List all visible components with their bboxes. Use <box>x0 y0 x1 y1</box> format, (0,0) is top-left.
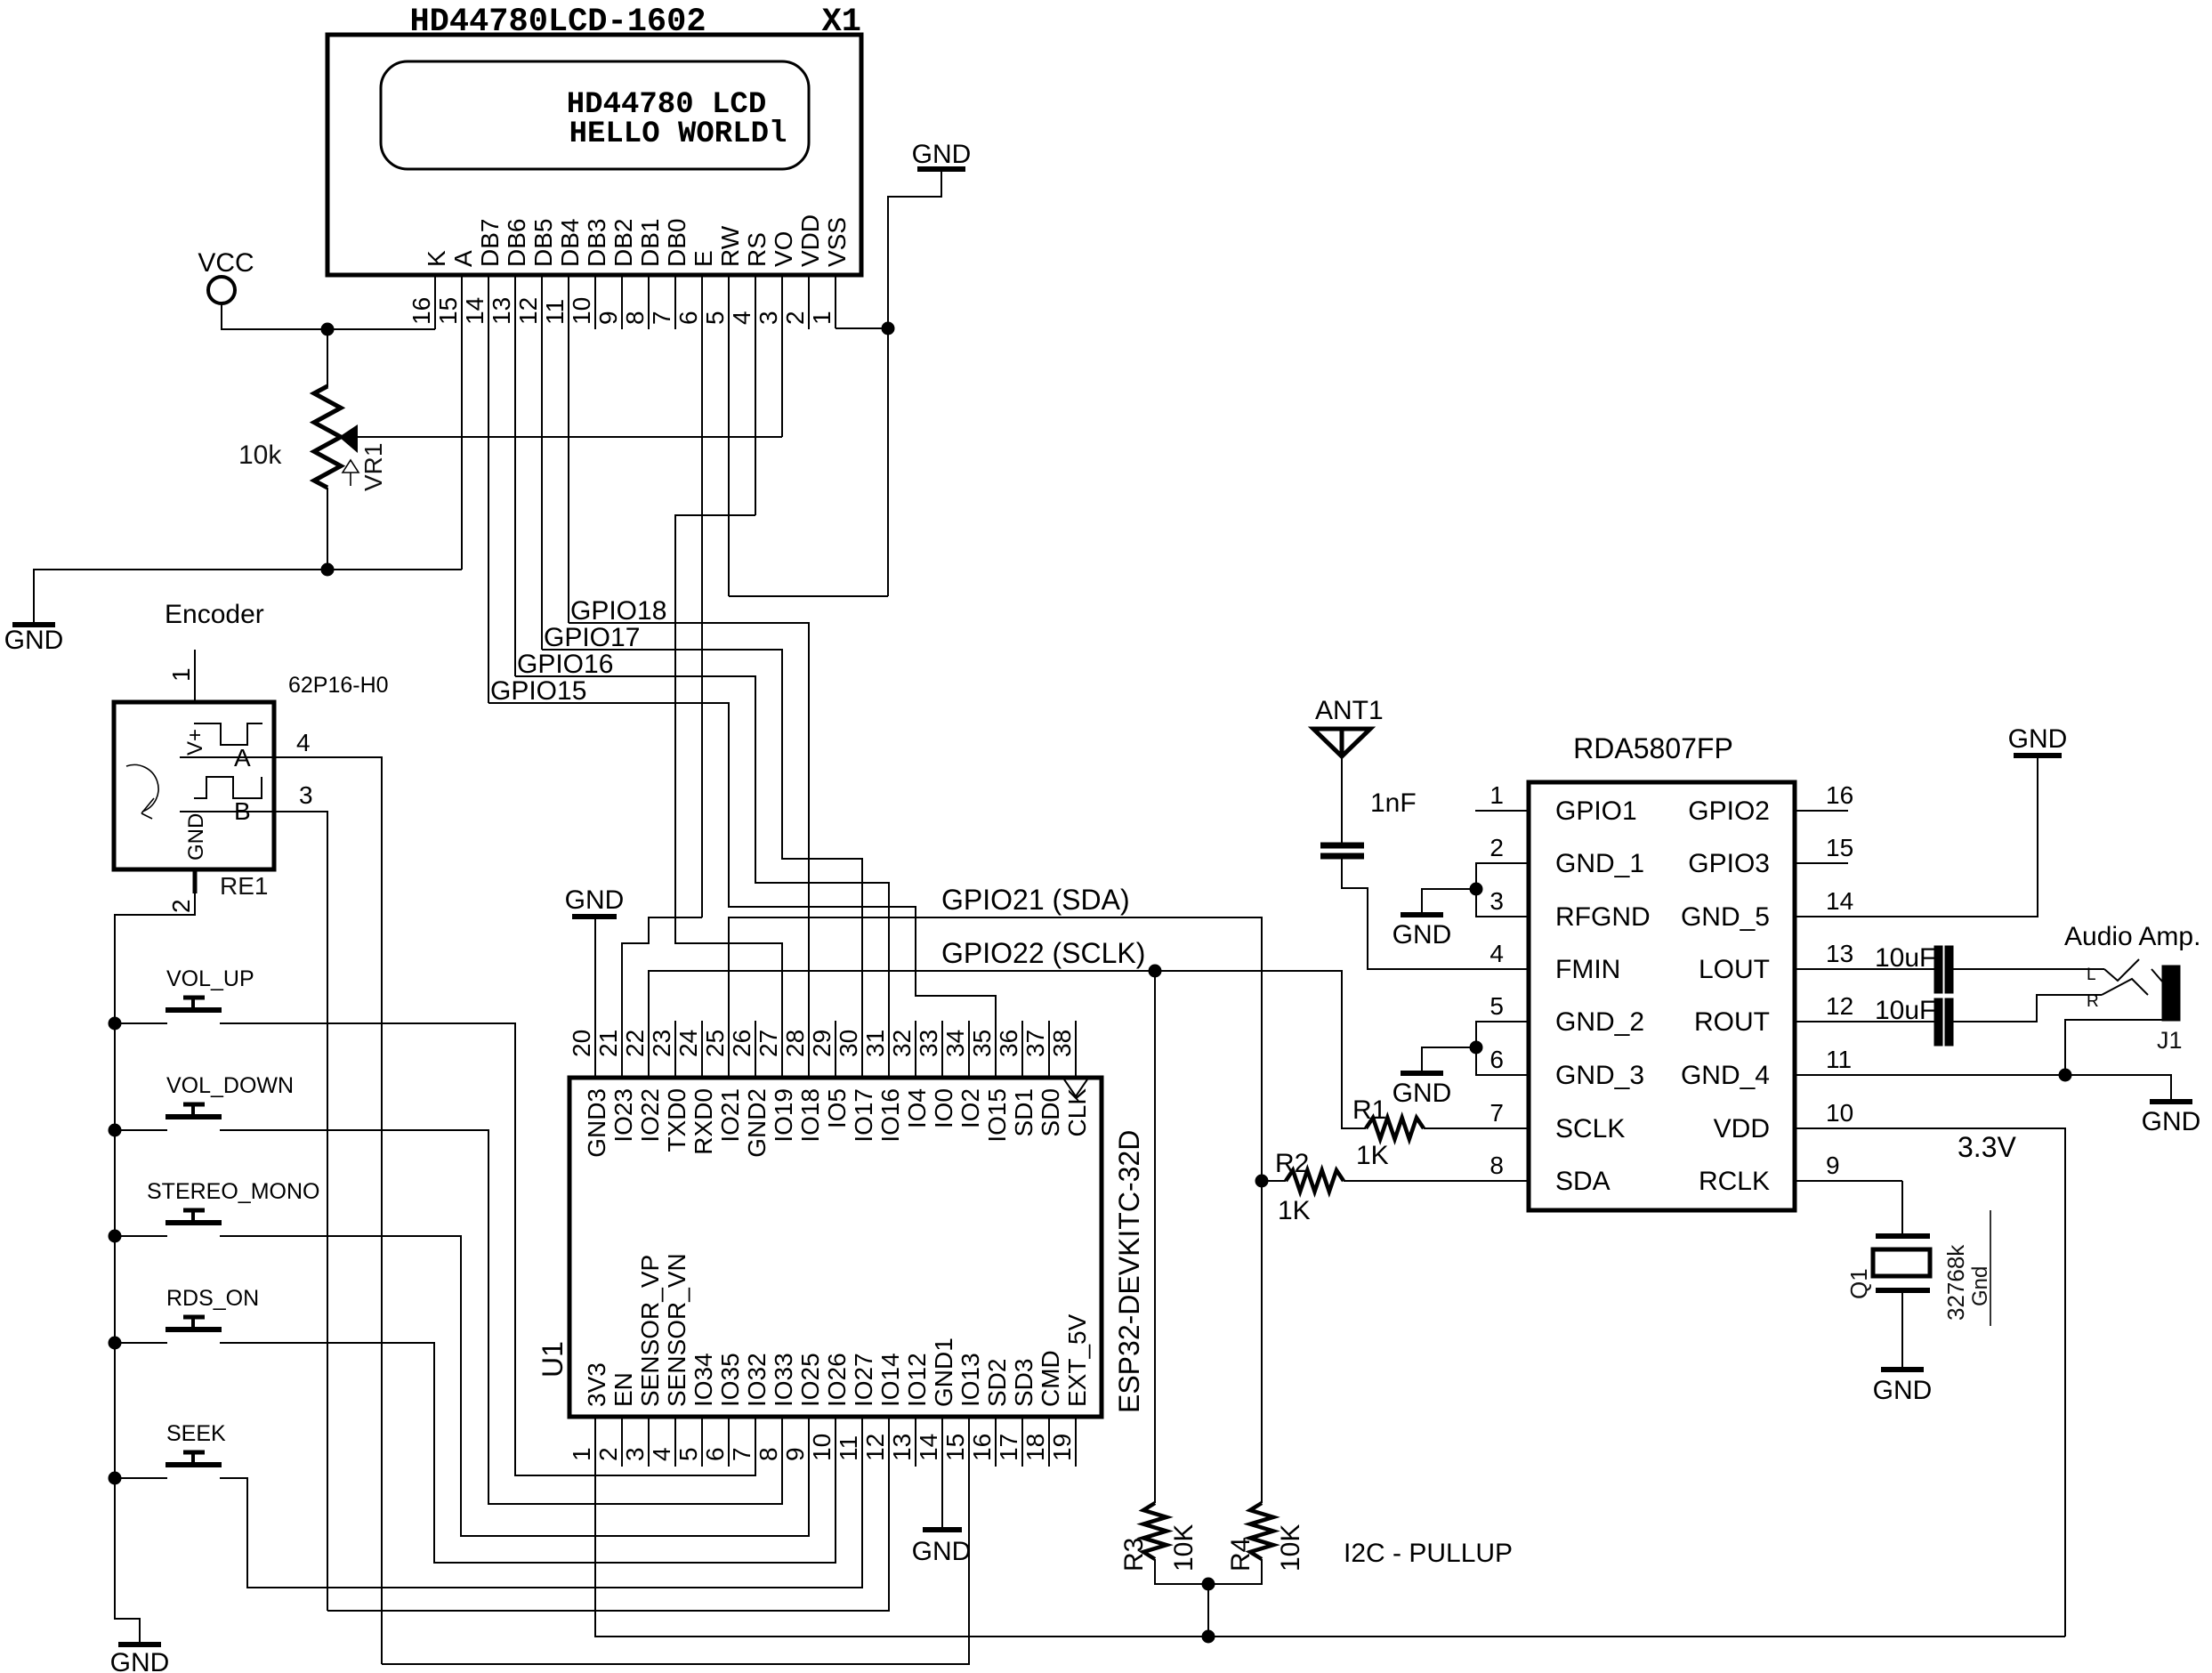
wire encoder A pin 4 <box>180 757 382 1664</box>
svg-text:R4: R4 <box>1226 1538 1255 1572</box>
wire LOUT to C3 <box>1795 968 1934 970</box>
wire ESP32 pin 2 stub <box>621 1417 623 1467</box>
wire LCD pin 14 stub <box>488 275 489 703</box>
svg-text:RW: RW <box>716 225 744 267</box>
LCD display window <box>381 61 809 169</box>
svg-text:9: 9 <box>1826 1152 1840 1179</box>
wire LCD pin 1 stub <box>835 275 836 328</box>
wire VSS to GND <box>836 327 889 329</box>
svg-text:IO27: IO27 <box>850 1353 877 1407</box>
svg-text:RFGND: RFGND <box>1555 902 1651 932</box>
svg-text:RDA5807FP: RDA5807FP <box>1573 732 1733 764</box>
svg-text:23: 23 <box>648 1030 675 1057</box>
wire encoder pin 2 stub <box>193 869 198 893</box>
wire 3V3 rail <box>595 1417 2065 1637</box>
svg-text:34: 34 <box>941 1030 969 1057</box>
LCD module X1 HD44780LCD-1602 box <box>327 35 861 275</box>
wire RDS_ON left <box>115 1342 167 1344</box>
wire crystal to GND <box>1901 1181 1903 1236</box>
svg-text:X1: X1 <box>822 4 861 41</box>
svg-text:8: 8 <box>1489 1152 1504 1179</box>
svg-text:IO12: IO12 <box>903 1353 931 1407</box>
wire LCD pin 10 stub <box>594 275 596 329</box>
wire encoder B to IO14 <box>327 1417 889 1611</box>
wire LCD pin 3 stub <box>781 275 783 437</box>
wire RDS_ON to IO26 <box>220 1343 836 1563</box>
svg-text:GPIO22 (SCLK): GPIO22 (SCLK) <box>941 937 1145 969</box>
svg-text:1K: 1K <box>1356 1141 1389 1170</box>
svg-text:DB5: DB5 <box>529 219 557 267</box>
svg-text:U1: U1 <box>537 1341 569 1378</box>
svg-text:RE1: RE1 <box>220 872 268 900</box>
svg-text:19: 19 <box>1048 1434 1076 1461</box>
junction RDA GND lower <box>1470 1041 1482 1054</box>
svg-text:2: 2 <box>167 899 195 913</box>
encoder waveform B <box>194 777 262 798</box>
wire to GND symbol lower <box>1422 1047 1476 1071</box>
svg-text:14: 14 <box>461 297 488 325</box>
svg-text:62P16-H0: 62P16-H0 <box>288 673 389 698</box>
svg-text:GND_5: GND_5 <box>1681 902 1770 932</box>
wire GPIO16 net (DB6 to IO16) <box>515 676 889 1078</box>
junction bus VOL_DOWN <box>109 1124 121 1136</box>
svg-text:15: 15 <box>1826 834 1853 861</box>
svg-text:GND: GND <box>110 1648 170 1673</box>
wire ESP32 pin 3 stub <box>648 1417 650 1467</box>
svg-text:SD1: SD1 <box>1010 1088 1037 1136</box>
svg-text:32: 32 <box>888 1030 916 1057</box>
wire GPIO21 SDA net <box>729 917 1262 1181</box>
svg-text:K: K <box>423 250 450 267</box>
wire RCLK to crystal <box>1795 1180 1902 1182</box>
svg-text:7: 7 <box>1489 1099 1504 1127</box>
wire SCLK to R3 <box>1154 971 1156 1503</box>
junction bus SEEK <box>109 1472 121 1484</box>
svg-text:2: 2 <box>1489 834 1504 861</box>
svg-text:IO13: IO13 <box>957 1353 984 1407</box>
wire RS to IO19 <box>675 515 782 1078</box>
svg-text:GND: GND <box>912 1537 972 1566</box>
svg-text:8: 8 <box>621 311 649 325</box>
wire LCD pin 11 stub <box>568 275 569 623</box>
svg-text:37: 37 <box>1021 1030 1049 1057</box>
wire STEREO_MONO left <box>115 1235 167 1237</box>
svg-text:DB3: DB3 <box>583 219 610 267</box>
svg-text:LOUT: LOUT <box>1699 955 1770 984</box>
svg-text:11: 11 <box>835 1435 862 1461</box>
wire jack sleeve to GND_4 <box>2065 1020 2162 1075</box>
wire RW to GND net <box>729 595 888 597</box>
svg-text:A: A <box>449 250 477 267</box>
wire ESP32 pin 24 stub <box>701 1021 703 1078</box>
svg-text:EN: EN <box>610 1372 637 1407</box>
wire GND3 stem <box>594 919 596 1078</box>
svg-text:3.3V: 3.3V <box>1958 1131 2016 1163</box>
ESP32 module U1 box <box>569 1078 1102 1417</box>
svg-text:CMD: CMD <box>1037 1350 1064 1407</box>
svg-text:DB0: DB0 <box>663 219 690 267</box>
svg-text:6: 6 <box>674 311 702 325</box>
wire RDA pin 15 stub <box>1795 862 1848 864</box>
svg-text:ROUT: ROUT <box>1694 1007 1770 1037</box>
wire RDA GND_5 to top GND <box>1795 758 2038 917</box>
svg-text:5: 5 <box>1489 992 1504 1020</box>
wire LCD pin 7 stub <box>674 275 676 329</box>
svg-text:28: 28 <box>781 1030 809 1057</box>
wire ESP32 pin 29 stub <box>835 1021 836 1078</box>
svg-text:DB4: DB4 <box>556 219 584 267</box>
svg-text:GND_4: GND_4 <box>1681 1061 1770 1090</box>
svg-text:RDS_ON: RDS_ON <box>166 1286 259 1311</box>
svg-text:7: 7 <box>728 1447 755 1461</box>
jack contact L <box>2104 959 2139 981</box>
svg-text:GPIO17: GPIO17 <box>544 623 640 652</box>
junction SDA / R2 <box>1255 1175 1268 1187</box>
svg-text:ESP32-DEVKITC-32D: ESP32-DEVKITC-32D <box>1113 1130 1145 1413</box>
ground symbol GND (ESP32 GND1) <box>923 1527 962 1532</box>
wire RDA pin 1 stub <box>1475 810 1529 812</box>
junction sleeve/GND_4 <box>2059 1069 2071 1081</box>
svg-text:2: 2 <box>781 311 809 325</box>
svg-text:18: 18 <box>1021 1434 1049 1461</box>
svg-text:GPIO2: GPIO2 <box>1688 796 1770 826</box>
svg-text:12: 12 <box>1826 992 1853 1020</box>
svg-text:9: 9 <box>594 311 622 325</box>
svg-text:EXT_5V: EXT_5V <box>1063 1313 1091 1407</box>
resistor R3 10K <box>1143 1503 1167 1559</box>
wire LCD pin15 A to left GND <box>34 570 462 623</box>
svg-text:GND_3: GND_3 <box>1555 1061 1644 1090</box>
wire SDA to R4 <box>1261 1181 1263 1503</box>
svg-text:IO23: IO23 <box>610 1088 637 1143</box>
crystal Q1 32768k <box>1876 1233 1930 1239</box>
svg-text:8: 8 <box>755 1447 782 1461</box>
svg-text:GND: GND <box>2142 1107 2201 1136</box>
ground symbol GND (GND_2/3) <box>1401 1071 1443 1076</box>
svg-text:L: L <box>2087 966 2096 984</box>
wire ESP32 pin 38 stub <box>1075 1021 1077 1078</box>
svg-text:17: 17 <box>995 1434 1022 1461</box>
svg-text:12: 12 <box>514 297 542 325</box>
wire to GND symbol upper <box>1422 889 1476 913</box>
push button STEREO_MONO <box>165 1220 222 1225</box>
ground symbol GND (ESP32 GND3) <box>572 914 617 919</box>
svg-text:25: 25 <box>701 1030 729 1057</box>
svg-text:35: 35 <box>968 1030 996 1057</box>
wire RDA pin 16 stub <box>1795 810 1848 812</box>
wire LCD pin 16 stub <box>434 275 436 329</box>
svg-text:16: 16 <box>1826 781 1853 809</box>
wire R3 R4 bottoms join <box>1155 1559 1262 1584</box>
resistor R1 1K <box>1366 1118 1424 1139</box>
svg-text:1: 1 <box>1489 781 1504 809</box>
svg-text:4: 4 <box>728 311 755 325</box>
wire R2 to RDA SDA <box>1344 1180 1529 1182</box>
svg-text:IO19: IO19 <box>770 1088 797 1143</box>
svg-text:15: 15 <box>941 1434 969 1461</box>
svg-text:15: 15 <box>434 297 462 325</box>
svg-text:10uF: 10uF <box>1875 996 1935 1025</box>
wire pot top <box>327 329 328 387</box>
svg-text:20: 20 <box>568 1030 595 1057</box>
svg-text:VO: VO <box>770 231 797 267</box>
svg-text:GND_1: GND_1 <box>1555 849 1644 878</box>
svg-text:GND: GND <box>565 885 625 915</box>
svg-text:IO34: IO34 <box>690 1353 717 1407</box>
svg-text:4: 4 <box>648 1447 675 1461</box>
push button SEEK <box>165 1462 222 1467</box>
svg-text:ANT1: ANT1 <box>1315 696 1384 725</box>
svg-text:16: 16 <box>408 297 435 325</box>
wire VDD to 3.3V rail <box>1795 1128 2065 1637</box>
svg-text:HELLO WORLDl: HELLO WORLDl <box>569 117 787 151</box>
svg-text:GPIO18: GPIO18 <box>570 596 666 626</box>
svg-text:3: 3 <box>299 781 313 809</box>
svg-text:14: 14 <box>1826 887 1853 915</box>
wire GND1 stem <box>941 1417 943 1530</box>
wire ESP32 pin 18 stub <box>1048 1417 1050 1467</box>
wire LCD pin 2 stub <box>808 275 810 329</box>
encoder waveform A <box>194 723 262 745</box>
svg-text:DB2: DB2 <box>610 219 637 267</box>
wire encoder B pin 3 <box>180 812 327 1611</box>
svg-text:VCC: VCC <box>198 248 254 278</box>
svg-text:Q1: Q1 <box>1845 1268 1872 1299</box>
capacitor C4 10uF <box>1934 998 1942 1046</box>
wire R1 to RDA SCLK <box>1424 1127 1529 1129</box>
rotary encoder RE1 box <box>114 702 274 869</box>
encoder rotation arrow <box>126 764 158 812</box>
svg-text:5: 5 <box>701 311 729 325</box>
wire encoder pin 1 <box>194 650 196 702</box>
wire ESP32 pin 19 stub <box>1075 1417 1077 1467</box>
resistor R2 1K <box>1286 1170 1344 1192</box>
svg-text:12: 12 <box>861 1434 889 1461</box>
wire 1nF to FMIN <box>1342 859 1529 969</box>
wire LCD pin 9 stub <box>621 275 623 329</box>
svg-text:GND2: GND2 <box>743 1088 771 1158</box>
svg-text:SEEK: SEEK <box>166 1421 226 1446</box>
wire GPIO15 net (DB7 to IO15) <box>488 703 996 1078</box>
svg-text:V+: V+ <box>183 729 207 756</box>
wire ESP32 pin 26 stub <box>755 1021 756 1078</box>
wire pullup join to 3V3 rail <box>1207 1584 1209 1637</box>
wire LCD pin 5 stub <box>728 275 730 596</box>
wire encoder pin 2 to ground bus <box>115 893 195 1643</box>
svg-text:VR1: VR1 <box>359 443 387 491</box>
wire LCD pin 6 stub <box>701 275 703 917</box>
wire ESP32 pin 32 stub <box>915 1021 916 1078</box>
svg-text:24: 24 <box>674 1030 702 1057</box>
FM tuner RDA5807FP box <box>1529 782 1795 1210</box>
svg-text:10: 10 <box>808 1434 836 1461</box>
svg-text:10: 10 <box>1826 1099 1853 1127</box>
ground symbol GND (far left) <box>12 622 55 627</box>
antenna ANT1 <box>1313 729 1370 756</box>
svg-text:Audio Amp.: Audio Amp. <box>2064 922 2200 951</box>
svg-text:1: 1 <box>808 311 836 325</box>
junction bus RDS_ON <box>109 1337 121 1349</box>
wire SEEK to IO27 <box>220 1417 862 1588</box>
svg-text:11: 11 <box>1826 1046 1852 1073</box>
svg-text:9: 9 <box>781 1447 809 1461</box>
ground symbol GND (button bus) <box>118 1642 161 1647</box>
svg-text:GND: GND <box>2008 724 2068 754</box>
svg-text:13: 13 <box>888 1434 916 1461</box>
wire VOL_UP left <box>115 1022 167 1024</box>
junction pot bottom / GND wire <box>321 563 334 576</box>
svg-text:4: 4 <box>296 729 311 756</box>
svg-text:30: 30 <box>835 1030 862 1057</box>
svg-text:IO16: IO16 <box>876 1088 904 1143</box>
svg-text:1nF: 1nF <box>1370 788 1417 818</box>
svg-text:IO18: IO18 <box>796 1088 824 1143</box>
wire SDA R2 left <box>1262 1180 1286 1182</box>
wire LCD pin 15 stub <box>461 275 463 570</box>
junction VSS/GND <box>882 322 894 335</box>
svg-text:R: R <box>2087 992 2099 1011</box>
audio jack J1 body <box>2162 966 2180 1021</box>
svg-text:R1: R1 <box>1352 1095 1386 1125</box>
ESP32 CLK chevron <box>1064 1079 1087 1096</box>
svg-text:33: 33 <box>915 1030 942 1057</box>
svg-text:4: 4 <box>1489 940 1504 967</box>
svg-text:IO25: IO25 <box>796 1353 824 1407</box>
svg-text:1: 1 <box>167 667 195 682</box>
svg-text:SENSOR_VP: SENSOR_VP <box>636 1255 664 1407</box>
svg-text:IO4: IO4 <box>903 1088 931 1128</box>
svg-text:VDD: VDD <box>1714 1114 1770 1144</box>
svg-text:RS: RS <box>743 232 771 267</box>
wire VOL_DOWN left <box>115 1129 167 1131</box>
junction VCC/pot <box>321 323 334 335</box>
svg-text:13: 13 <box>1826 940 1853 967</box>
svg-text:IO15: IO15 <box>983 1088 1011 1143</box>
svg-text:10k: 10k <box>238 440 282 470</box>
wire GPIO22 SCLK net <box>649 971 1366 1128</box>
wire VOL_DOWN to IO33 <box>220 1130 782 1504</box>
svg-text:SDA: SDA <box>1555 1167 1611 1196</box>
svg-text:29: 29 <box>808 1030 836 1057</box>
svg-text:SENSOR_VN: SENSOR_VN <box>663 1253 690 1407</box>
svg-text:GPIO3: GPIO3 <box>1688 849 1770 878</box>
wire RDA pins 5,6 to GND <box>1476 1022 1529 1075</box>
svg-text:GPIO1: GPIO1 <box>1555 796 1637 826</box>
svg-text:IO32: IO32 <box>743 1353 771 1407</box>
svg-text:VOL_DOWN: VOL_DOWN <box>166 1073 294 1098</box>
push button VOL_DOWN <box>165 1114 222 1119</box>
svg-text:GPIO15: GPIO15 <box>490 676 586 706</box>
svg-text:RXD0: RXD0 <box>690 1088 717 1155</box>
wire LCD pin 8 stub <box>648 275 650 329</box>
push button RDS_ON <box>165 1327 222 1332</box>
wire antenna to C <box>1341 756 1343 843</box>
ground symbol GND (LCD VSS) <box>917 166 965 172</box>
wire GPIO17 net (DB5 to IO17) <box>542 650 862 1078</box>
power symbol VCC <box>208 277 235 303</box>
junction R3/R4 <box>1202 1578 1215 1590</box>
junction SCLK / R3 <box>1149 965 1161 977</box>
svg-text:IO35: IO35 <box>716 1353 744 1407</box>
svg-text:DB7: DB7 <box>476 219 504 267</box>
svg-text:VSS: VSS <box>823 217 851 267</box>
svg-text:3: 3 <box>1489 887 1504 915</box>
svg-text:IO17: IO17 <box>850 1088 877 1143</box>
svg-text:VOL_UP: VOL_UP <box>166 966 254 991</box>
jack contact R <box>2102 979 2148 995</box>
svg-text:16: 16 <box>968 1434 996 1461</box>
svg-text:3: 3 <box>755 311 782 325</box>
svg-text:IO2: IO2 <box>957 1088 984 1128</box>
wire SEEK left <box>115 1477 167 1479</box>
resistor R4 10K <box>1250 1503 1273 1559</box>
svg-text:21: 21 <box>594 1030 622 1057</box>
svg-text:GND: GND <box>912 140 972 169</box>
wire pot bottom <box>327 488 328 570</box>
wire LCD pin 13 stub <box>514 275 516 676</box>
svg-text:E: E <box>690 250 717 267</box>
svg-text:SD3: SD3 <box>1010 1359 1037 1407</box>
svg-text:6: 6 <box>701 1447 729 1461</box>
wire ESP32 pin 17 stub <box>1021 1417 1023 1467</box>
svg-text:27: 27 <box>755 1030 782 1057</box>
svg-text:10uF: 10uF <box>1875 943 1935 973</box>
svg-text:11: 11 <box>541 299 569 325</box>
svg-text:7: 7 <box>648 311 675 325</box>
wire GND_4 net <box>1795 1075 2171 1100</box>
svg-text:5: 5 <box>674 1447 702 1461</box>
wire ESP32 pin 16 stub <box>995 1417 997 1467</box>
wire STEREO_MONO to IO25 <box>220 1236 809 1536</box>
wire LCD pin 12 stub <box>541 275 543 650</box>
svg-text:J1: J1 <box>2157 1027 2183 1054</box>
svg-text:13: 13 <box>488 297 515 325</box>
push button VOL_UP <box>165 1007 222 1013</box>
wire wiper to LCD VO <box>357 436 782 438</box>
svg-text:1: 1 <box>568 1447 595 1461</box>
wire ESP32 pin 36 stub <box>1021 1021 1023 1078</box>
svg-text:32768k: 32768k <box>1942 1244 1969 1321</box>
wire C4 to jack R <box>1953 995 2102 1022</box>
wire ESP32 pin 13 stub <box>915 1417 916 1467</box>
capacitor C3 10uF <box>1934 946 1942 993</box>
wire ESP32 pin 6 stub <box>728 1417 730 1467</box>
svg-text:10K: 10K <box>1276 1524 1305 1572</box>
wire VOL_UP to IO32 <box>220 1023 755 1475</box>
svg-text:14: 14 <box>915 1434 942 1461</box>
svg-text:GND: GND <box>1393 1079 1452 1108</box>
svg-text:3V3: 3V3 <box>583 1362 610 1407</box>
svg-text:RCLK: RCLK <box>1699 1167 1770 1196</box>
svg-text:STEREO_MONO: STEREO_MONO <box>147 1179 319 1204</box>
svg-text:IO22: IO22 <box>636 1088 664 1143</box>
potentiometer VR1 10k body <box>314 386 341 488</box>
svg-text:10K: 10K <box>1169 1524 1199 1572</box>
ground symbol GND (jack) <box>2150 1099 2192 1104</box>
svg-text:IO21: IO21 <box>716 1088 744 1143</box>
svg-text:GND: GND <box>1873 1376 1933 1405</box>
svg-text:R2: R2 <box>1275 1149 1309 1178</box>
svg-text:38: 38 <box>1048 1030 1076 1057</box>
svg-text:36: 36 <box>995 1030 1022 1057</box>
pot wiper arrow <box>339 424 358 453</box>
wire ESP32 pin 23 stub <box>674 1021 676 1078</box>
wire GND stem <box>888 172 941 596</box>
junction rail/pullups <box>1202 1630 1215 1643</box>
svg-text:HD44780LCD-1602: HD44780LCD-1602 <box>409 4 706 41</box>
svg-text:GND1: GND1 <box>930 1338 957 1407</box>
svg-text:IO14: IO14 <box>876 1353 904 1407</box>
